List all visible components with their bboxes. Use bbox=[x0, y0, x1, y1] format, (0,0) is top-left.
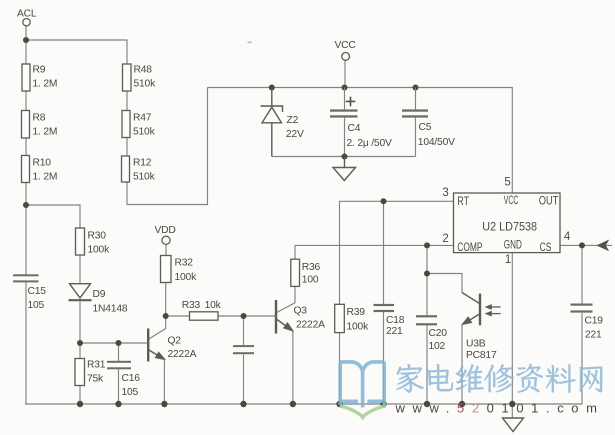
svg-text:1. 2M: 1. 2M bbox=[33, 78, 58, 89]
svg-text:R10: R10 bbox=[33, 158, 52, 169]
node VDD terminal bbox=[155, 225, 176, 244]
wire R12 down right and up to VCC bus bbox=[127, 88, 208, 205]
svg-text:4: 4 bbox=[564, 231, 571, 243]
svg-text:Z2: Z2 bbox=[287, 115, 299, 126]
wire U3B emitter to rail bbox=[461, 325, 463, 404]
svg-text:2. 2μ /50V: 2. 2μ /50V bbox=[347, 138, 392, 149]
svg-text:C5: C5 bbox=[419, 122, 432, 133]
junction C20 U3B branch bbox=[424, 271, 430, 277]
junction rail C16 bbox=[115, 401, 121, 407]
junction rail C18 bbox=[380, 401, 386, 407]
wire R9 to R8 bbox=[25, 91, 27, 111]
junction Q2 collector node bbox=[163, 313, 169, 319]
wire R33 to Q3 base bbox=[218, 315, 275, 317]
svg-text:5: 5 bbox=[504, 177, 510, 189]
junction CS line at C19 bbox=[579, 242, 585, 248]
svg-text:C15: C15 bbox=[28, 286, 47, 297]
resistor R31 bbox=[75, 359, 106, 386]
svg-text:R31: R31 bbox=[87, 360, 106, 371]
svg-text:VDD: VDD bbox=[155, 225, 176, 236]
svg-text:C19: C19 bbox=[585, 316, 604, 327]
capacitor C4 bbox=[330, 88, 392, 157]
junction node B bbox=[77, 340, 83, 346]
svg-text:PC817: PC817 bbox=[466, 350, 497, 361]
svg-text:VCC: VCC bbox=[335, 40, 357, 51]
wire CS node down to C19 bbox=[581, 245, 583, 303]
wire Q2 collector riser bbox=[149, 316, 166, 339]
svg-text:C20: C20 bbox=[429, 328, 448, 339]
svg-text:105: 105 bbox=[122, 387, 139, 398]
ground below GND pin bbox=[503, 418, 524, 432]
junction VCC bus at Z2 bbox=[269, 85, 275, 91]
wire C15 to bottom rail bbox=[25, 283, 27, 405]
capacitor C16 bbox=[107, 361, 140, 398]
junction COMP line at C20 bbox=[424, 242, 430, 248]
node VCC terminal bbox=[335, 40, 357, 60]
svg-text:100k: 100k bbox=[175, 272, 198, 283]
svg-text:2: 2 bbox=[442, 233, 448, 245]
diode D9 bbox=[69, 284, 92, 301]
wire node to R30 bbox=[26, 205, 80, 228]
svg-text:R9: R9 bbox=[33, 65, 46, 76]
ground below C4 bbox=[333, 157, 356, 181]
svg-text:R48: R48 bbox=[134, 65, 153, 76]
junction rail GND bbox=[509, 401, 515, 407]
wire R31 to rail bbox=[79, 386, 81, 405]
transistor Q2 bbox=[148, 329, 165, 362]
junction rail Q2 emitter bbox=[161, 401, 167, 407]
wire GND pin 1 to ground bbox=[511, 253, 513, 418]
speck artifact bbox=[247, 41, 251, 43]
svg-text:R47: R47 bbox=[133, 113, 152, 124]
svg-text:GND: GND bbox=[504, 238, 522, 252]
svg-text:www.520101.com: www.520101.com bbox=[395, 401, 605, 416]
wire node to C15 bbox=[25, 205, 27, 275]
svg-text:C16: C16 bbox=[122, 373, 141, 384]
capacitor C20 bbox=[416, 315, 447, 352]
svg-text:COMP: COMP bbox=[457, 240, 482, 254]
resistor R48 bbox=[123, 64, 157, 91]
wire Q3 collector riser to R36 bbox=[277, 259, 295, 312]
wire R32 to Q2 collector node bbox=[165, 283, 167, 317]
svg-text:CS: CS bbox=[540, 240, 552, 254]
svg-text:R12: R12 bbox=[133, 158, 152, 169]
wire C18 to rail bbox=[383, 312, 385, 404]
svg-text:105: 105 bbox=[28, 300, 45, 311]
junction ACL node bbox=[23, 37, 29, 43]
capacitor C19 bbox=[571, 304, 604, 341]
svg-text:510k: 510k bbox=[134, 78, 157, 89]
capacitor C17 mid bbox=[233, 345, 254, 354]
junction rail C20 bbox=[424, 401, 430, 407]
watermark book icon bbox=[340, 362, 384, 406]
wire D9 to node B bbox=[79, 302, 81, 344]
wire VDD terminal to R32 bbox=[165, 245, 167, 256]
svg-text:VCC: VCC bbox=[504, 193, 519, 207]
junction left chain node bbox=[23, 202, 29, 208]
transistor Q3 bbox=[276, 300, 293, 334]
zener Z2 bbox=[261, 88, 283, 157]
resistor R8 bbox=[22, 111, 58, 139]
VCC bus horizontal bbox=[208, 88, 513, 194]
capacitor C15 bbox=[13, 274, 46, 311]
wire R30 to D9 bbox=[79, 255, 81, 284]
junction bottom bus at C4 bbox=[342, 154, 348, 160]
junction VCC bus at C4 bbox=[342, 85, 348, 91]
svg-text:R8: R8 bbox=[33, 113, 46, 124]
wire RT pin 3 bbox=[340, 201, 454, 304]
svg-text:U3B: U3B bbox=[466, 339, 486, 350]
svg-text:R39: R39 bbox=[347, 307, 366, 318]
svg-text:R33 10k: R33 10k bbox=[182, 300, 222, 311]
svg-text:R30: R30 bbox=[88, 230, 107, 241]
svg-text:104/50V: 104/50V bbox=[418, 137, 455, 148]
resistor R30 bbox=[76, 228, 111, 256]
wire R48 to R47 bbox=[126, 91, 128, 111]
svg-text:2222A: 2222A bbox=[168, 349, 197, 360]
svg-text:OUT: OUT bbox=[539, 193, 559, 207]
resistor R9 bbox=[22, 64, 57, 91]
svg-text:22V: 22V bbox=[286, 129, 304, 140]
svg-text:510k: 510k bbox=[133, 127, 156, 138]
resistor R12 bbox=[122, 156, 156, 183]
wire CS pin 4 out bbox=[560, 244, 612, 246]
wire top horizontal to R48 chain bbox=[26, 40, 127, 64]
wire Z2 C4 C5 bottom bus bbox=[272, 156, 416, 158]
svg-text:2222A: 2222A bbox=[296, 319, 325, 330]
svg-text:D9: D9 bbox=[93, 289, 106, 300]
wire C19 to rail corner bbox=[25, 313, 582, 404]
svg-text:C18: C18 bbox=[386, 315, 405, 326]
wire node B to R31 bbox=[79, 343, 81, 359]
svg-text:75k: 75k bbox=[87, 373, 104, 384]
svg-text:100k: 100k bbox=[347, 322, 370, 333]
resistor R33 bbox=[182, 300, 222, 320]
svg-text:1N4148: 1N4148 bbox=[93, 304, 128, 315]
svg-text:C4: C4 bbox=[348, 123, 361, 134]
svg-text:221: 221 bbox=[585, 330, 602, 341]
resistor R36 bbox=[291, 259, 321, 286]
junction R33 Q3 node bbox=[241, 313, 247, 319]
resistor R39 bbox=[335, 304, 369, 332]
svg-text:Q2: Q2 bbox=[168, 336, 182, 347]
wire node B to Q2 base bbox=[80, 342, 147, 344]
wire R10 to node bbox=[25, 183, 27, 206]
svg-text:3: 3 bbox=[442, 187, 448, 199]
resistor R47 bbox=[122, 111, 156, 138]
wire COMP node down to C20 bbox=[426, 245, 428, 315]
wire ACL terminal to junction bbox=[25, 26, 27, 64]
junction rail C17 bbox=[240, 401, 246, 407]
watermark chinese text bbox=[396, 364, 602, 393]
wire R36 top to COMP line bbox=[295, 245, 454, 259]
svg-text:Q3: Q3 bbox=[294, 305, 308, 316]
svg-text:510k: 510k bbox=[133, 172, 156, 183]
wire R47 to R12 bbox=[126, 138, 128, 157]
svg-text:221: 221 bbox=[386, 326, 403, 337]
svg-text:1. 2M: 1. 2M bbox=[33, 172, 58, 183]
optocoupler U3B PC817 bbox=[462, 293, 501, 326]
arrow CS out bbox=[598, 241, 609, 251]
svg-text:1. 2M: 1. 2M bbox=[33, 127, 58, 138]
wire mid cap C17 to rail bbox=[243, 354, 245, 404]
wire Q3 emitter to rail bbox=[292, 331, 294, 404]
svg-text:U2 LD7538: U2 LD7538 bbox=[482, 220, 537, 234]
junction rail Q3 emitter bbox=[290, 401, 296, 407]
node ACL terminal bbox=[17, 9, 37, 26]
svg-text:R36: R36 bbox=[302, 262, 321, 273]
svg-text:100k: 100k bbox=[88, 245, 111, 256]
wire collector node to R33 bbox=[166, 315, 190, 317]
junction RT line at C18 bbox=[381, 198, 387, 204]
junction rail U3B emitter bbox=[459, 401, 465, 407]
wire R8 to R10 bbox=[25, 138, 27, 156]
svg-text:1: 1 bbox=[505, 254, 511, 266]
wire C16 to rail bbox=[118, 369, 120, 404]
wire node B branch to C16 bbox=[118, 343, 120, 361]
resistor R10 bbox=[22, 156, 58, 183]
wire R39 to rail bbox=[339, 333, 341, 404]
wire C18 drop from RT line bbox=[383, 201, 385, 304]
wire mid cap C17 top bbox=[243, 316, 245, 345]
svg-text:RT: RT bbox=[457, 194, 469, 208]
resistor R32 bbox=[161, 256, 198, 284]
wire node to U3B collector bbox=[427, 274, 462, 293]
IC U2 LD7538 bbox=[442, 177, 571, 266]
svg-text:R32: R32 bbox=[175, 258, 194, 269]
svg-text:100: 100 bbox=[302, 275, 319, 286]
capacitor C5 bbox=[402, 88, 455, 157]
junction rail R31 bbox=[77, 401, 83, 407]
wire Q2 emitter to rail bbox=[163, 359, 165, 404]
svg-text:102: 102 bbox=[429, 341, 446, 352]
junction node B C16 branch bbox=[116, 340, 122, 346]
wire VCC terminal to bus bbox=[344, 60, 346, 87]
watermark book base swoosh bbox=[340, 406, 386, 418]
junction VCC bus at C5 bbox=[413, 85, 419, 91]
junction rail R39 bbox=[336, 401, 342, 407]
wire C20 to rail bbox=[426, 325, 428, 404]
capacitor C18 bbox=[374, 304, 405, 337]
